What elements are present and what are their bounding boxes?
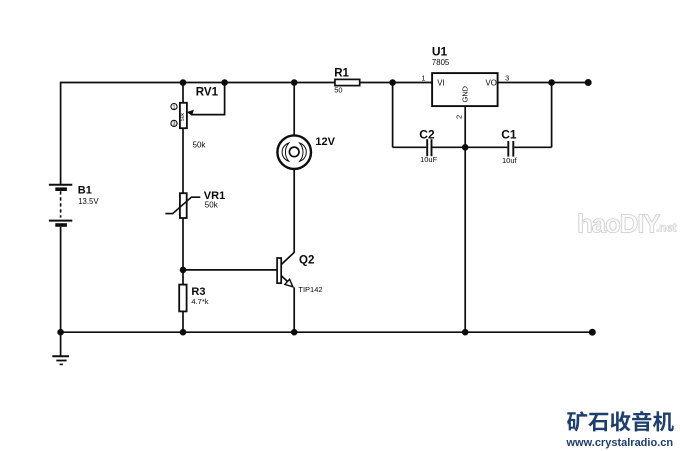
junction top rail at buzzer — [291, 79, 298, 86]
wire R3 to bottom rail — [182, 311, 184, 332]
junction top rail at wiper — [221, 79, 228, 86]
junction bottom rail GND — [462, 329, 469, 336]
svg-text:50k: 50k — [193, 140, 207, 149]
svg-text:10uF: 10uF — [420, 155, 438, 164]
wire buzzer branch top — [293, 83, 295, 136]
battery B1 — [49, 185, 99, 226]
wire left vertical — [60, 82, 62, 185]
svg-text:4.7*k: 4.7*k — [191, 297, 208, 306]
junction top rail at RV1 — [180, 79, 187, 86]
svg-text:RV1: RV1 — [196, 86, 219, 98]
svg-text:1: 1 — [421, 74, 425, 83]
logo crystalradio — [566, 411, 674, 449]
svg-text:2: 2 — [455, 115, 464, 119]
resistor R3 — [179, 285, 209, 312]
junction top rail at C2 — [389, 79, 396, 86]
node base junction — [180, 267, 187, 274]
regulator U1 7805 — [421, 44, 509, 119]
junction bottom rail left — [57, 329, 64, 336]
junction bottom rail R3 — [180, 329, 187, 336]
wire cap rail middle — [432, 146, 507, 148]
svg-text:12V: 12V — [315, 136, 335, 148]
watermark haoDIY.net — [577, 209, 677, 239]
wire bottom rail — [61, 331, 593, 333]
svg-text:50: 50 — [334, 86, 342, 95]
ground — [52, 332, 69, 364]
wire emitter down — [293, 287, 295, 332]
wire RV1 branch top — [182, 83, 184, 103]
wire U1 output rail — [498, 82, 589, 84]
svg-text:U1: U1 — [432, 44, 448, 58]
resistor R1 — [334, 67, 359, 94]
svg-text:10uf: 10uf — [502, 156, 518, 165]
svg-text:1: 1 — [173, 105, 176, 111]
wire top rail left — [61, 82, 335, 84]
svg-text:B1: B1 — [78, 185, 92, 197]
svg-text:C1: C1 — [501, 127, 517, 141]
wire RV1 to VR1 — [182, 128, 184, 193]
svg-text:haoDIY: haoDIY — [577, 209, 660, 239]
svg-text:C2: C2 — [419, 127, 435, 141]
potentiometer RV1 — [171, 86, 219, 149]
capacitor C2 — [419, 127, 437, 164]
svg-text:GND: GND — [461, 86, 470, 102]
wire cap rail left — [393, 146, 427, 148]
wire C2 left branch — [392, 83, 394, 148]
wire buzzer to transistor — [293, 169, 295, 253]
wire U1 GND down — [464, 106, 466, 332]
svg-text:VI: VI — [437, 79, 444, 88]
svg-text:7805: 7805 — [432, 58, 450, 67]
svg-text:R1: R1 — [334, 67, 349, 79]
capacitor C1 — [501, 127, 517, 165]
svg-text:3: 3 — [173, 121, 176, 127]
transistor Q2 — [277, 252, 322, 294]
svg-text:Q2: Q2 — [299, 255, 314, 267]
wire VR1 to node — [182, 218, 184, 285]
svg-text:50k: 50k — [180, 113, 186, 122]
junction cap rail GND — [462, 144, 469, 151]
thermistor VR1 — [165, 190, 225, 218]
wire R1 to U1 — [360, 82, 432, 84]
buzzer LS1 12V — [277, 135, 335, 169]
junction bottom rail emitter — [291, 329, 298, 336]
terminal bottom right — [589, 329, 596, 336]
svg-text:.net: .net — [656, 223, 677, 235]
RV1 wiper arrow — [187, 110, 194, 116]
svg-text:www.crystalradio.cn: www.crystalradio.cn — [566, 437, 674, 449]
wire RV1 wiper — [191, 83, 224, 115]
wire C1 right branch — [551, 83, 553, 148]
wire cap rail right — [514, 146, 551, 148]
terminal VOUT — [585, 79, 592, 86]
svg-text:VO: VO — [486, 79, 497, 88]
svg-text:50k: 50k — [205, 200, 219, 209]
svg-text:3: 3 — [505, 74, 509, 83]
svg-text:TIP142: TIP142 — [298, 285, 322, 294]
wire base — [183, 269, 277, 271]
wire battery to bottom rail — [60, 227, 62, 332]
svg-text:13.5V: 13.5V — [78, 197, 99, 206]
junction top rail at C1 — [548, 79, 555, 86]
